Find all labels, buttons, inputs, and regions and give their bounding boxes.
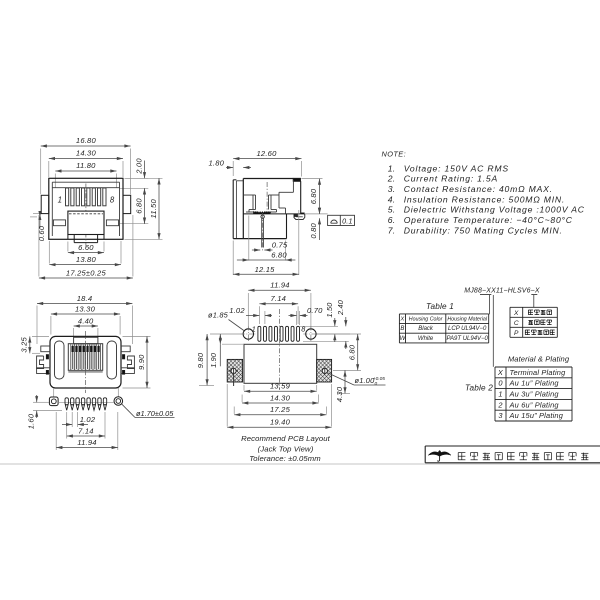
svg-text:1: 1 (58, 196, 63, 205)
svg-text:NOTE:: NOTE: (382, 149, 407, 158)
svg-text:9.90: 9.90 (137, 354, 146, 370)
svg-text:Voltage: 150V AC RMS: Voltage: 150V AC RMS (404, 163, 509, 173)
svg-text:11.94: 11.94 (77, 438, 96, 447)
svg-text:(Jack Top View): (Jack Top View) (258, 445, 314, 454)
svg-text:LCP UL94V−0: LCP UL94V−0 (448, 326, 487, 332)
svg-text:1: 1 (252, 325, 256, 334)
svg-text:11.94: 11.94 (270, 281, 289, 290)
svg-text:16.80: 16.80 (76, 136, 97, 145)
svg-text:3: 3 (498, 411, 503, 420)
svg-text:Table 1: Table 1 (426, 302, 454, 311)
svg-text:12.15: 12.15 (255, 265, 276, 274)
svg-text:6.: 6. (388, 215, 396, 225)
svg-text:0.60: 0.60 (37, 225, 46, 241)
svg-text:White: White (418, 336, 434, 342)
svg-text:Au 6u” Plating: Au 6u” Plating (509, 400, 560, 409)
svg-text:2.: 2. (387, 174, 396, 184)
svg-text:Terminal Plating: Terminal Plating (510, 368, 567, 377)
svg-text:14.30: 14.30 (270, 393, 291, 402)
svg-text:0.75: 0.75 (272, 240, 288, 249)
svg-text:5.: 5. (388, 205, 396, 215)
svg-text:X: X (400, 316, 405, 322)
svg-text:3.: 3. (388, 184, 396, 194)
svg-text:1.80: 1.80 (209, 158, 225, 167)
svg-text:X: X (497, 368, 504, 377)
svg-text:Dielectric Withstang Voltage: Dielectric Withstang Voltage :1000V AC (404, 205, 585, 215)
svg-text:Au 15u” Plating: Au 15u” Plating (509, 411, 564, 420)
svg-text:Durability: 750 Mating Cycl: Durability: 750 Mating Cycles MIN. (404, 225, 563, 235)
svg-text:X: X (513, 310, 519, 317)
svg-text:Housing Color: Housing Color (409, 316, 443, 322)
svg-text:6.80: 6.80 (271, 251, 287, 260)
svg-text:11.50: 11.50 (149, 199, 158, 219)
svg-text:Operature Temperature: −40°C: Operature Temperature: −40°C~80°C (404, 215, 573, 225)
svg-text:4.30: 4.30 (335, 386, 344, 402)
svg-text:Tolerance: ±0.05mm: Tolerance: ±0.05mm (249, 454, 321, 463)
svg-text:6.80: 6.80 (309, 188, 318, 204)
svg-text:2.00: 2.00 (134, 158, 143, 175)
svg-text:12.60: 12.60 (256, 149, 277, 158)
svg-text:1: 1 (498, 390, 502, 399)
svg-text:P: P (514, 330, 519, 337)
svg-text:0.1: 0.1 (342, 216, 353, 225)
svg-text:2: 2 (497, 400, 502, 409)
svg-text:11.80: 11.80 (76, 161, 96, 170)
svg-text:Au 3u” Plating: Au 3u” Plating (509, 390, 560, 399)
svg-text:Housing Material: Housing Material (447, 316, 488, 322)
svg-text:1.90: 1.90 (209, 353, 218, 368)
svg-text:7.14: 7.14 (271, 294, 287, 303)
svg-text:18.4: 18.4 (77, 294, 93, 303)
svg-text:C: C (514, 320, 519, 327)
svg-text:7.: 7. (388, 225, 396, 235)
svg-text:14.30: 14.30 (76, 149, 97, 158)
svg-text:2.40: 2.40 (336, 300, 345, 316)
svg-text:Black: Black (418, 326, 434, 332)
svg-text:1.50: 1.50 (325, 302, 334, 317)
svg-text:0.80: 0.80 (309, 222, 318, 238)
svg-text:6.80: 6.80 (348, 344, 357, 360)
svg-text:1.02: 1.02 (229, 306, 245, 315)
svg-text:13.80: 13.80 (76, 255, 97, 264)
svg-text:13.30: 13.30 (75, 304, 96, 313)
svg-text:8: 8 (110, 196, 115, 205)
svg-text:ø1.70±0.05: ø1.70±0.05 (136, 409, 174, 418)
svg-text:6.80: 6.80 (134, 198, 143, 214)
svg-text:B: B (400, 326, 404, 332)
svg-text:MJ88−XX11−HLSV6−X: MJ88−XX11−HLSV6−X (464, 287, 540, 294)
svg-text:3.25: 3.25 (20, 336, 29, 352)
svg-text:0.70: 0.70 (307, 306, 323, 315)
svg-text:Au 1u” Plating: Au 1u” Plating (509, 379, 560, 388)
svg-text:0: 0 (498, 379, 503, 388)
svg-text:17.25±0.25: 17.25±0.25 (66, 268, 107, 277)
svg-text:4.40: 4.40 (78, 316, 94, 325)
svg-text:8: 8 (301, 325, 305, 334)
svg-text:Insulation Resistance: 500MΩ: Insulation Resistance: 500MΩ MIN. (404, 194, 565, 204)
svg-text:4.: 4. (388, 194, 396, 204)
svg-text:9.80: 9.80 (196, 352, 205, 368)
svg-text:17.25: 17.25 (270, 405, 291, 414)
svg-text:ø1.85: ø1.85 (208, 311, 229, 320)
svg-text:Current Rating: 1.5A: Current Rating: 1.5A (404, 174, 498, 184)
svg-text:1.60: 1.60 (27, 413, 36, 429)
svg-text:0: 0 (375, 381, 378, 387)
svg-text:Contact Resistance: 40mΩ MAX: Contact Resistance: 40mΩ MAX. (404, 184, 553, 194)
svg-text:19.40: 19.40 (270, 418, 291, 427)
svg-text:7.14: 7.14 (78, 426, 94, 435)
svg-text:PA9T UL94V−0: PA9T UL94V−0 (446, 336, 488, 342)
svg-text:13.59: 13.59 (270, 382, 291, 391)
svg-text:1.: 1. (388, 163, 396, 173)
svg-text:Table 2: Table 2 (465, 384, 493, 393)
svg-text:Material & Plating: Material & Plating (508, 355, 570, 364)
svg-text:1.02: 1.02 (80, 415, 96, 424)
svg-text:Recommend PCB Layout: Recommend PCB Layout (241, 434, 331, 443)
